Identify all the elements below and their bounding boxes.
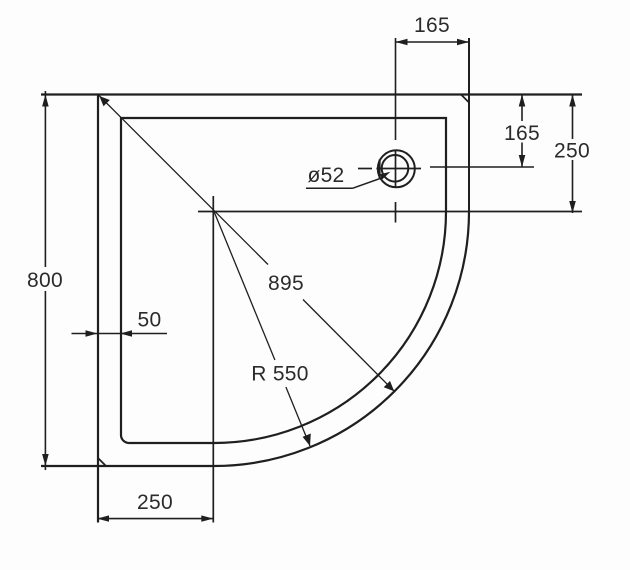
outer tray top edge (with extension lines both sides) bbox=[41, 93, 582, 95]
drain inner circle bbox=[382, 155, 409, 182]
dimension 250 right line bbox=[572, 95, 574, 140]
dimension 895 arrow at corner bbox=[99, 96, 110, 106]
dimension 895 arrow at arc bbox=[384, 381, 395, 391]
svg-text:50: 50 bbox=[138, 309, 162, 332]
diagonal dimension 895 line upper segment bbox=[98, 95, 268, 265]
outer tray bottom edge (with extension to left) bbox=[41, 465, 214, 467]
dimension 800 arrow top bbox=[42, 95, 49, 107]
diagonal dimension 895 line lower segment bbox=[303, 300, 395, 392]
dimension 250 right arrow bottom bbox=[569, 201, 576, 213]
dimension 165 right line bbox=[521, 95, 523, 122]
dimension 50 arrow pointing right at outer edge bbox=[86, 330, 98, 336]
dimension 800 line bbox=[44, 91, 46, 267]
outer tray right edge (with extension up to top dim) bbox=[468, 38, 470, 212]
drain outer circle bbox=[378, 150, 415, 187]
dimension 250 bottom arrow left bbox=[97, 515, 109, 521]
dimension 50 line bbox=[72, 333, 168, 335]
outer tray left edge (with extension down to bottom dim) bbox=[97, 95, 99, 523]
radius R550 line lower segment bbox=[286, 387, 310, 446]
radius R550 line upper segment bbox=[214, 212, 275, 361]
drain horizontal center line dashes bbox=[358, 168, 372, 170]
svg-text:165: 165 bbox=[414, 14, 450, 37]
outer tray bottom-left chamfer bbox=[98, 458, 106, 466]
vertical center line through arc center (extension for bottom dim) bbox=[212, 196, 214, 523]
drain vertical center line dashes bbox=[395, 150, 397, 189]
svg-text:250: 250 bbox=[554, 140, 590, 163]
dimension 165 top arrow left bbox=[396, 39, 408, 46]
dimension 50 arrow pointing left at inner edge bbox=[120, 330, 132, 336]
inner tray outline bbox=[121, 118, 446, 443]
dimension 250 bottom arrow right bbox=[201, 515, 213, 521]
label ø52 leader arrow bbox=[380, 172, 390, 180]
dimension 165 top arrow right bbox=[457, 39, 469, 46]
dimension 250 right arrow top bbox=[569, 95, 576, 107]
label ø52 leader line bbox=[353, 178, 384, 189]
radius R550 arrow at arc bbox=[303, 434, 311, 447]
dimension 250 bottom line bbox=[97, 518, 213, 520]
dimension 165 top left extension bbox=[395, 38, 397, 140]
dimension 800 arrow bottom bbox=[42, 454, 49, 466]
svg-text:R 550: R 550 bbox=[251, 363, 309, 386]
outer tray top-right chamfer bbox=[461, 95, 469, 103]
dimension 165 right arrow top bbox=[519, 95, 526, 107]
svg-text:895: 895 bbox=[268, 272, 304, 295]
drain center line extension to right dimension bbox=[430, 166, 534, 168]
horizontal center line through arc center bbox=[198, 211, 582, 213]
drain left chord line bbox=[379, 160, 381, 179]
svg-text:165: 165 bbox=[504, 122, 540, 145]
dimension 165 right arrow bottom bbox=[519, 155, 526, 167]
svg-text:250: 250 bbox=[137, 491, 173, 514]
label ø52 underline bbox=[306, 187, 353, 189]
outer quarter-circle arc R550 bbox=[214, 212, 469, 467]
svg-text:800: 800 bbox=[27, 269, 63, 292]
dimension 165 top line bbox=[396, 41, 470, 43]
svg-text:ø52: ø52 bbox=[307, 164, 344, 187]
